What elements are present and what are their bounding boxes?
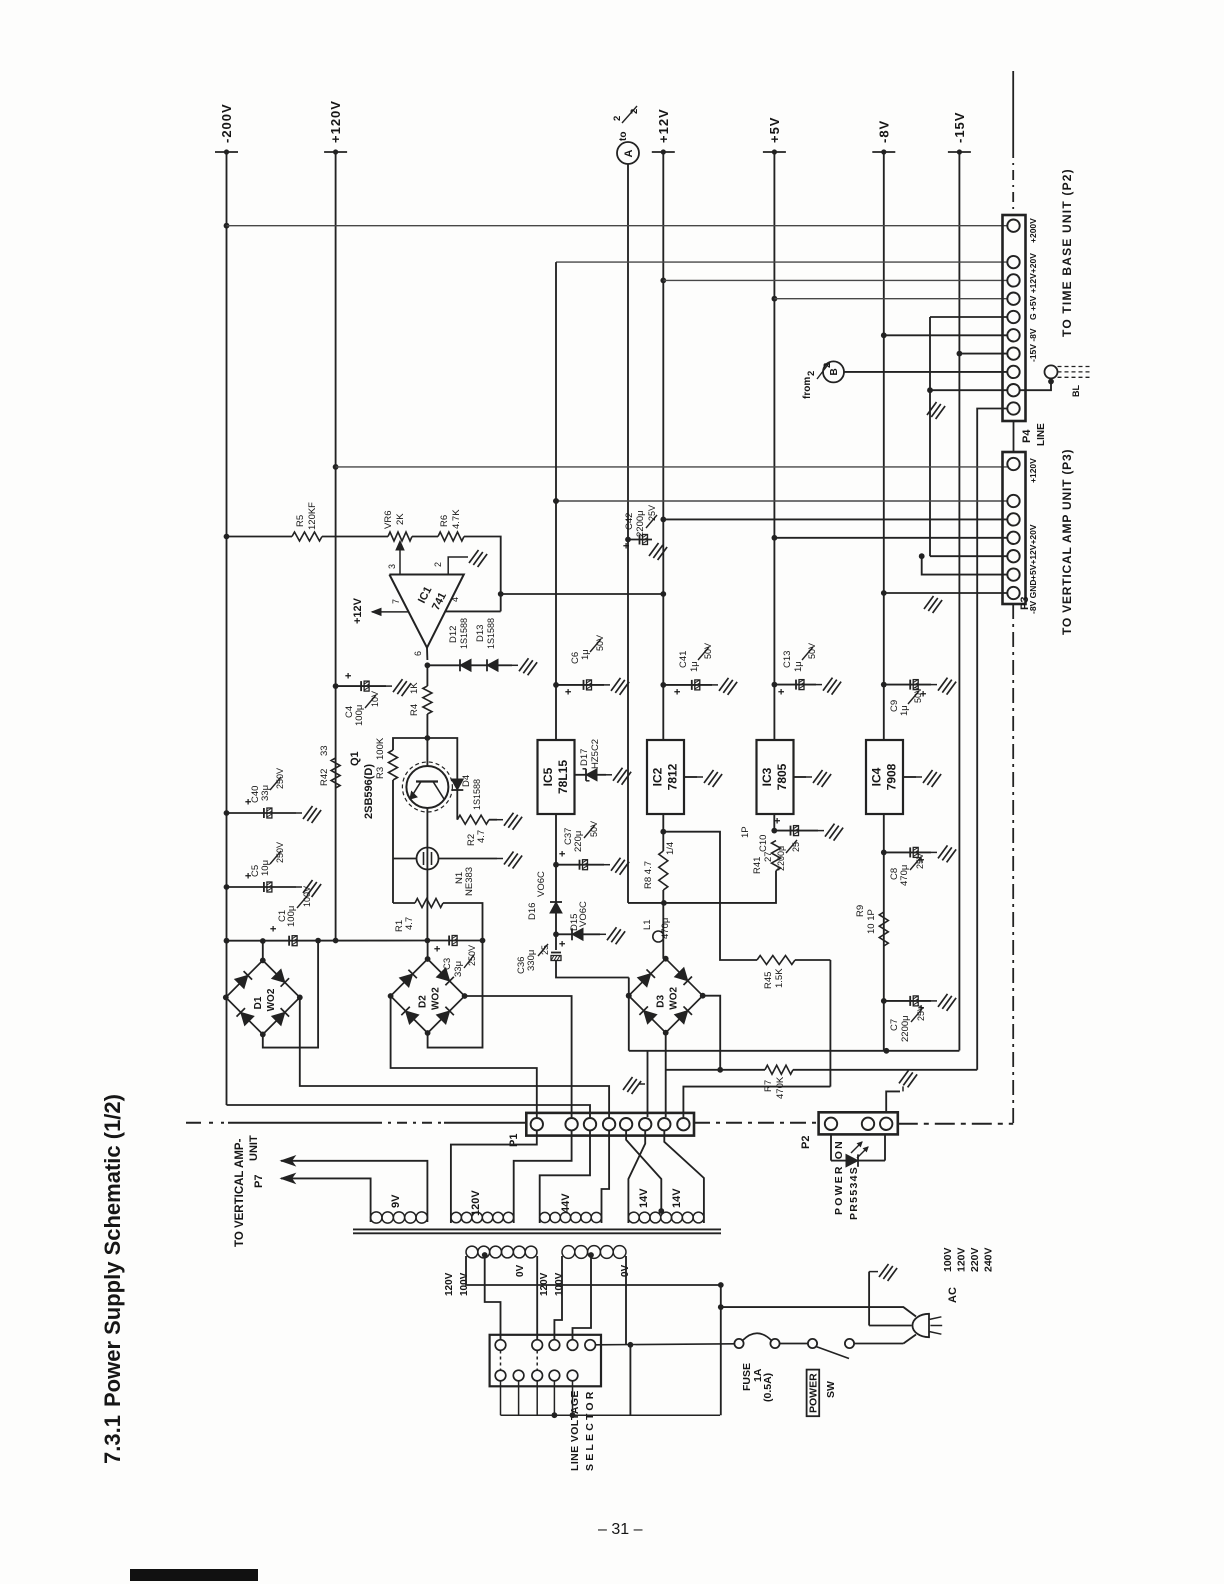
svg-text:4: 4 xyxy=(450,597,460,602)
svg-text:R8 4.7: R8 4.7 xyxy=(643,861,654,889)
svg-text:+: + xyxy=(268,926,280,932)
svg-text:-8V GND: -8V GND xyxy=(1028,580,1038,614)
svg-text:50V: 50V xyxy=(595,635,605,651)
svg-text:IC2: IC2 xyxy=(651,767,665,786)
svg-text:120V: 120V xyxy=(444,1272,455,1296)
svg-text:A: A xyxy=(623,150,635,158)
svg-text:330μ: 330μ xyxy=(526,950,537,971)
svg-text:2: 2 xyxy=(822,363,833,368)
svg-text:7.3.1: 7.3.1 xyxy=(100,1415,125,1464)
svg-text:R5: R5 xyxy=(295,515,306,527)
svg-text:C7: C7 xyxy=(889,1019,900,1031)
svg-text:D1: D1 xyxy=(253,996,264,1009)
svg-text:R45: R45 xyxy=(763,972,774,989)
svg-text:+: + xyxy=(772,818,784,824)
svg-text:14V: 14V xyxy=(638,1188,650,1208)
svg-text:R4: R4 xyxy=(409,704,420,716)
svg-text:+: + xyxy=(432,946,444,952)
svg-text:50V: 50V xyxy=(807,643,817,659)
svg-text:1μ: 1μ xyxy=(689,661,700,672)
svg-text:R6: R6 xyxy=(439,515,450,527)
svg-text:D17: D17 xyxy=(579,749,590,766)
svg-text:1S1588: 1S1588 xyxy=(459,618,469,649)
svg-text:2: 2 xyxy=(806,371,817,376)
svg-text:R41: R41 xyxy=(752,857,763,874)
svg-text:+: + xyxy=(776,689,788,695)
svg-text:-8V: -8V xyxy=(876,120,891,143)
svg-text:1μ: 1μ xyxy=(793,661,804,672)
svg-text:IC3: IC3 xyxy=(760,767,774,786)
svg-text:120V: 120V xyxy=(470,1190,482,1216)
svg-text:4.7: 4.7 xyxy=(404,917,415,930)
svg-text:R9: R9 xyxy=(855,905,866,917)
svg-text:TO VERTICAL AMP-: TO VERTICAL AMP- xyxy=(234,1138,246,1247)
svg-text:C13: C13 xyxy=(782,651,793,668)
svg-text:+: + xyxy=(557,851,569,857)
svg-text:2SB596(D): 2SB596(D) xyxy=(363,764,375,819)
svg-text:100V: 100V xyxy=(942,1247,954,1272)
svg-text:NE383: NE383 xyxy=(464,867,475,896)
svg-text:D16: D16 xyxy=(527,903,538,920)
svg-text:2: 2 xyxy=(612,116,623,121)
svg-text:VO6C: VO6C xyxy=(578,901,589,927)
svg-text:6: 6 xyxy=(413,651,423,656)
svg-text:240V: 240V xyxy=(983,1247,995,1272)
svg-text:2K: 2K xyxy=(395,513,406,525)
svg-text:IC5: IC5 xyxy=(541,767,555,786)
svg-text:50V: 50V xyxy=(913,687,923,703)
svg-text:WO2: WO2 xyxy=(669,986,680,1009)
svg-text:D2: D2 xyxy=(418,995,429,1008)
svg-text:BL: BL xyxy=(1071,385,1081,397)
svg-text:+5V+12V+20V: +5V+12V+20V xyxy=(1028,524,1038,580)
svg-text:100K: 100K xyxy=(375,737,386,760)
svg-text:SW: SW xyxy=(825,1381,837,1398)
svg-text:-15V: -15V xyxy=(952,112,967,143)
svg-text:120V: 120V xyxy=(956,1247,968,1272)
svg-text:C3: C3 xyxy=(442,958,453,970)
svg-text:44V: 44V xyxy=(560,1193,572,1213)
svg-text:33μ: 33μ xyxy=(453,961,464,977)
svg-text:2: 2 xyxy=(433,562,443,567)
svg-text:PR5534S: PR5534S xyxy=(848,1166,860,1220)
svg-text:470μ: 470μ xyxy=(660,918,671,939)
svg-text:WO2: WO2 xyxy=(431,987,442,1010)
svg-text:250V: 250V xyxy=(467,945,477,966)
svg-text:1μ: 1μ xyxy=(899,705,910,716)
svg-text:25V: 25V xyxy=(915,853,925,869)
svg-text:WO2: WO2 xyxy=(266,988,277,1011)
svg-text:25: 25 xyxy=(540,945,550,955)
svg-text:G +5V +12V+20V: G +5V +12V+20V xyxy=(1028,253,1038,320)
svg-text:1S1588: 1S1588 xyxy=(486,618,496,649)
svg-text:UNIT: UNIT xyxy=(248,1135,260,1161)
svg-text:C42: C42 xyxy=(624,513,635,530)
svg-text:+: + xyxy=(343,673,355,679)
svg-text:27: 27 xyxy=(763,851,774,862)
svg-text:+12V: +12V xyxy=(352,597,364,624)
svg-text:R42: R42 xyxy=(319,769,330,786)
svg-text:TO TIME BASE UNIT (P2): TO TIME BASE UNIT (P2) xyxy=(1060,168,1074,337)
svg-text:TO VERTICAL AMP UNIT (P3): TO VERTICAL AMP UNIT (P3) xyxy=(1060,449,1074,635)
svg-text:-15V -8V: -15V -8V xyxy=(1028,328,1038,362)
svg-text:33: 33 xyxy=(319,745,330,756)
svg-text:LINE: LINE xyxy=(1036,423,1047,446)
svg-text:33μ: 33μ xyxy=(260,785,271,801)
svg-text:AC: AC xyxy=(947,1287,959,1303)
svg-text:1P: 1P xyxy=(740,826,751,838)
svg-text:B: B xyxy=(829,368,840,375)
svg-text:1μ: 1μ xyxy=(580,649,591,660)
svg-text:25V: 25V xyxy=(916,1005,926,1021)
svg-text:C41: C41 xyxy=(678,651,689,668)
svg-text:7: 7 xyxy=(391,599,401,604)
svg-text:– 31 –: – 31 – xyxy=(598,1521,643,1538)
svg-text:P4: P4 xyxy=(1021,429,1033,443)
svg-text:9V: 9V xyxy=(390,1194,402,1208)
svg-text:1.5K: 1.5K xyxy=(774,968,785,988)
svg-text:+12V: +12V xyxy=(656,108,671,143)
svg-text:VO6C: VO6C xyxy=(536,871,547,897)
svg-text:-200V: -200V xyxy=(219,103,234,143)
svg-text:250V: 250V xyxy=(275,768,285,789)
svg-text:D12: D12 xyxy=(448,626,459,643)
svg-text:from: from xyxy=(802,377,813,399)
svg-text:50V: 50V xyxy=(589,821,599,837)
svg-text:7908: 7908 xyxy=(885,763,899,790)
svg-text:D4: D4 xyxy=(461,775,472,787)
svg-text:100μ: 100μ xyxy=(354,705,365,726)
svg-text:7805: 7805 xyxy=(775,763,789,790)
svg-text:10V: 10V xyxy=(370,691,380,707)
svg-text:78L15: 78L15 xyxy=(556,760,570,794)
svg-text:4.7K: 4.7K xyxy=(451,509,462,529)
svg-text:+: + xyxy=(621,543,633,549)
svg-text:1/4: 1/4 xyxy=(665,842,676,855)
svg-text:2: 2 xyxy=(629,109,640,114)
svg-text:Q1: Q1 xyxy=(349,751,361,766)
svg-text:100μ: 100μ xyxy=(286,906,297,927)
svg-text:220μ: 220μ xyxy=(573,831,584,852)
svg-text:IC4: IC4 xyxy=(870,767,884,786)
svg-text:POWER ON: POWER ON xyxy=(833,1139,845,1215)
svg-text:+: + xyxy=(557,941,569,947)
svg-text:L1: L1 xyxy=(642,919,653,930)
svg-text:3: 3 xyxy=(387,564,397,569)
svg-text:4.7: 4.7 xyxy=(476,830,487,843)
svg-text:10μ: 10μ xyxy=(260,860,271,876)
svg-text:25V: 25V xyxy=(647,505,657,521)
svg-text:+200V: +200V xyxy=(1028,218,1038,243)
svg-text:P7: P7 xyxy=(253,1175,265,1188)
svg-text:50V: 50V xyxy=(703,643,713,659)
svg-text:+: + xyxy=(672,689,684,695)
svg-text:7812: 7812 xyxy=(666,763,680,790)
svg-text:R3: R3 xyxy=(375,767,386,779)
svg-text:2200μ: 2200μ xyxy=(635,510,646,537)
svg-text:2200μ: 2200μ xyxy=(900,1015,911,1042)
svg-text:1S1588: 1S1588 xyxy=(472,779,482,810)
svg-text:VR6: VR6 xyxy=(383,511,394,529)
svg-text:SELECTOR: SELECTOR xyxy=(584,1388,596,1471)
svg-text:470μ: 470μ xyxy=(899,865,910,886)
svg-text:120KF: 120KF xyxy=(307,502,318,530)
svg-text:HZ5C2: HZ5C2 xyxy=(590,739,601,769)
svg-text:250V: 250V xyxy=(275,842,285,863)
svg-text:+120V: +120V xyxy=(1028,458,1038,483)
svg-text:to: to xyxy=(618,132,629,141)
svg-text:100V: 100V xyxy=(302,886,312,907)
svg-text:0V: 0V xyxy=(515,1264,526,1277)
svg-text:Power Supply Schematic (1/2): Power Supply Schematic (1/2) xyxy=(100,1094,125,1407)
svg-text:POWER: POWER xyxy=(808,1373,820,1413)
svg-text:D13: D13 xyxy=(475,625,486,642)
svg-text:25: 25 xyxy=(791,842,801,852)
svg-text:LINE VOLTAGE: LINE VOLTAGE xyxy=(569,1390,581,1471)
svg-text:+120V: +120V xyxy=(328,100,343,143)
svg-text:10 1P: 10 1P xyxy=(866,909,877,934)
svg-text:220V: 220V xyxy=(969,1247,981,1272)
svg-text:470K: 470K xyxy=(775,1076,786,1099)
svg-text:+: + xyxy=(563,689,575,695)
svg-text:P2: P2 xyxy=(800,1136,812,1149)
svg-text:+5V: +5V xyxy=(767,117,782,144)
svg-text:C10: C10 xyxy=(758,835,769,852)
svg-text:14V: 14V xyxy=(671,1188,683,1208)
svg-text:D3: D3 xyxy=(656,994,667,1007)
svg-text:(0.5A): (0.5A) xyxy=(762,1373,774,1402)
